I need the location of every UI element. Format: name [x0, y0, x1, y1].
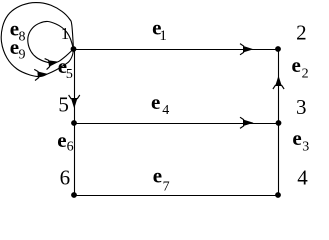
svg-text:4: 4: [297, 166, 308, 190]
arrowhead e9 (inner loop): [45, 56, 60, 69]
node 6 dot: [71, 192, 77, 198]
svg-text:4: 4: [162, 103, 169, 118]
wire e4 (edge 5 to 3): [74, 123, 279, 125]
arrowhead e5 (pointing down): [69, 95, 80, 109]
svg-text:2: 2: [302, 67, 309, 82]
arrowhead e2 (pointing up): [273, 76, 284, 90]
svg-text:e: e: [57, 128, 66, 152]
svg-text:5: 5: [58, 93, 69, 117]
svg-text:e: e: [292, 53, 301, 77]
node 1 dot: [71, 46, 77, 52]
svg-text:9: 9: [19, 48, 26, 63]
self-loop e8 (outer loop at node 1): [1, 3, 73, 77]
self-loop e9 (inner loop at node 1): [28, 21, 74, 62]
svg-text:e: e: [153, 164, 162, 188]
svg-text:2: 2: [296, 20, 307, 44]
svg-text:5: 5: [66, 67, 73, 82]
wire e7 (edge 6 to 4): [74, 195, 278, 197]
node 4 dot: [275, 192, 281, 198]
node 3 dot: [276, 120, 282, 126]
arrowhead e8 (outer loop): [34, 68, 48, 80]
wire e5 (edge 1 to 5): [74, 49, 76, 123]
svg-text:3: 3: [302, 140, 309, 155]
wire e1 (edge 1 to 2): [74, 49, 279, 51]
svg-text:e: e: [292, 126, 301, 150]
svg-text:e: e: [151, 90, 160, 114]
svg-text:1: 1: [159, 28, 167, 44]
svg-text:7: 7: [163, 180, 170, 195]
node 2 dot: [275, 46, 281, 52]
arrowhead e1: [240, 44, 254, 55]
arrowhead e4: [240, 117, 254, 128]
svg-text:1: 1: [61, 24, 69, 43]
wire e6 (edge 5 to 6): [74, 123, 76, 195]
node 5 dot: [71, 120, 77, 126]
wire e3 (edge 3 to 4): [278, 123, 280, 195]
wire e2 (edge 3 to 2): [278, 49, 280, 123]
svg-text:8: 8: [19, 29, 26, 44]
svg-text:6: 6: [67, 140, 74, 155]
svg-text:6: 6: [60, 165, 71, 189]
svg-text:3: 3: [296, 95, 307, 119]
